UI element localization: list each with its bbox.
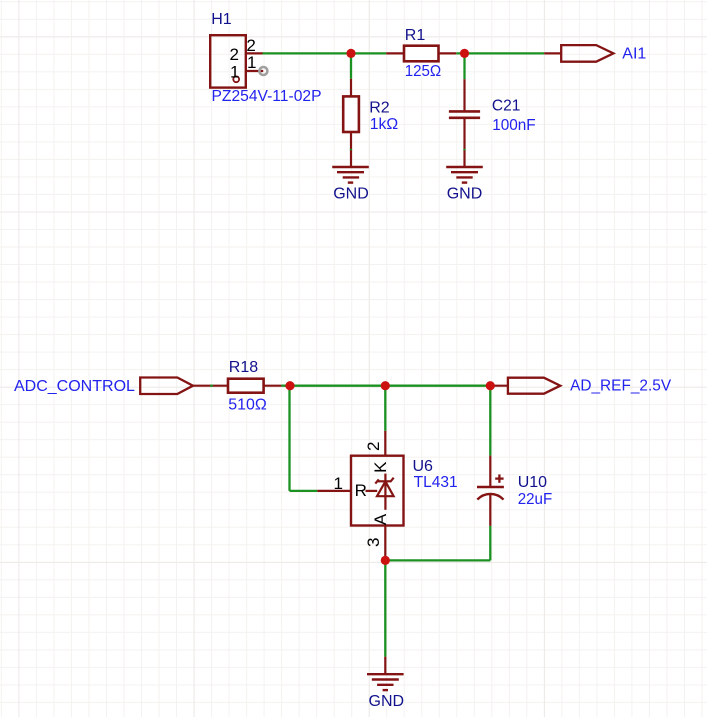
svg-text:H1: H1 (211, 11, 232, 28)
junction node A left (285, 381, 294, 390)
capacitor U10 top lead (489, 456, 491, 487)
capacitor C21 plate 1 (449, 110, 480, 113)
svg-text:2: 2 (364, 442, 383, 451)
svg-text:R2: R2 (369, 100, 390, 117)
wire U10 to bottom (489, 526, 491, 561)
resistor R18 right lead (264, 385, 282, 387)
svg-text:GND: GND (333, 186, 369, 203)
svg-text:510Ω: 510Ω (228, 396, 267, 413)
resistor R1 right lead (439, 52, 457, 54)
resistor R2 bottom lead (350, 132, 352, 150)
ground symbol GND3 (367, 674, 404, 690)
resistor R1 left lead (386, 52, 404, 54)
wire C21 to GND (463, 149, 465, 151)
U6 cathode bar left tick (375, 479, 379, 483)
net flag AD_REF pin (490, 385, 508, 387)
svg-text:R1: R1 (405, 27, 426, 44)
capacitor U10 bottom lead (489, 493, 491, 526)
svg-text:K: K (371, 461, 390, 473)
net flag AI1 (561, 45, 613, 62)
wire bottom horizontal (385, 559, 490, 561)
resistor R1 body (404, 46, 439, 62)
U6 cathode bar right tick (390, 478, 394, 482)
net flag AI1 pin (544, 52, 561, 54)
svg-text:GND: GND (447, 186, 483, 203)
svg-text:100nF: 100nF (492, 117, 536, 134)
capacitor C21 top lead (463, 79, 465, 111)
svg-text:22uF: 22uF (518, 491, 553, 508)
wire left branch vertical (288, 386, 290, 491)
H1 pin 1 no-connect circle (259, 67, 267, 75)
svg-text:1: 1 (247, 53, 256, 72)
capacitor C21 bottom lead (463, 118, 465, 150)
svg-text:1: 1 (230, 63, 239, 82)
svg-text:3: 3 (364, 538, 383, 547)
connector H1 body (210, 35, 246, 87)
svg-text:GND: GND (369, 693, 405, 710)
GND pin bottom (384, 657, 386, 675)
U6 pin 1 lead (317, 490, 351, 492)
svg-text:AD_REF_2.5V: AD_REF_2.5V (570, 377, 671, 394)
junction node at R2 top (346, 49, 355, 58)
net flag ADC_CONTROL pin (193, 385, 228, 387)
GND pin below C21 (463, 150, 465, 167)
U6 pin 2 wire (384, 386, 386, 431)
capacitor C21 plate 2 (449, 117, 480, 120)
svg-text:R: R (355, 481, 367, 500)
svg-text:PZ254V-11-02P: PZ254V-11-02P (212, 88, 322, 105)
wire R1 to AI1 (456, 52, 544, 54)
wire junction to R2 (350, 53, 352, 78)
svg-text:TL431: TL431 (414, 474, 458, 491)
resistor R2 top lead (350, 79, 352, 97)
svg-text:ADC_CONTROL: ADC_CONTROL (14, 378, 135, 395)
H1 pin 1 (246, 70, 263, 72)
wire R2 to GND (350, 149, 352, 151)
svg-text:125Ω: 125Ω (405, 63, 442, 80)
junction node at C21 top (460, 49, 469, 58)
wire speck before R18 (210, 385, 213, 387)
net flag ADC_CONTROL (140, 378, 193, 395)
U6 internal diode triangle (377, 481, 394, 496)
wire junction to C21 (463, 53, 465, 79)
svg-text:U10: U10 (518, 474, 547, 491)
ground symbol GND2 (446, 167, 483, 183)
capacitor U10 top plate (477, 486, 504, 489)
svg-text:C21: C21 (492, 97, 521, 114)
wire H1 pin2 to R1 (263, 52, 387, 54)
wire left branch horizontal (290, 490, 318, 492)
ground symbol GND1 (332, 167, 369, 183)
U6 pin 3 lead (384, 526, 386, 557)
svg-text:AI1: AI1 (622, 46, 646, 63)
U6 internal line to R (366, 490, 378, 492)
junction node B middle (381, 381, 390, 390)
svg-text:A: A (371, 513, 390, 525)
net flag AD_REF_2.5V (508, 378, 560, 394)
capacitor U10 plus sign (495, 474, 503, 482)
svg-text:U6: U6 (413, 458, 434, 475)
junction node C right (486, 381, 495, 390)
U6 internal diode cathode bar (378, 480, 391, 482)
svg-text:2: 2 (230, 45, 239, 64)
svg-text:R18: R18 (229, 359, 258, 376)
H1 pin 2 (246, 52, 263, 54)
wire junction C down to U10 (489, 386, 491, 456)
junction node D (381, 556, 390, 565)
svg-text:1kΩ: 1kΩ (370, 116, 399, 133)
capacitor U10 curved plate (477, 494, 503, 500)
resistor R2 body (343, 96, 359, 132)
wire R18 to AD_REF flag (281, 385, 490, 387)
GND pin below R2 (350, 150, 352, 167)
U6 body (351, 456, 404, 526)
U6 internal vertical line K to A (384, 474, 386, 510)
wire D to GND (384, 560, 386, 656)
resistor R18 body (228, 379, 264, 393)
U6 pin 2 lead (384, 431, 386, 456)
svg-text:1: 1 (334, 474, 343, 493)
